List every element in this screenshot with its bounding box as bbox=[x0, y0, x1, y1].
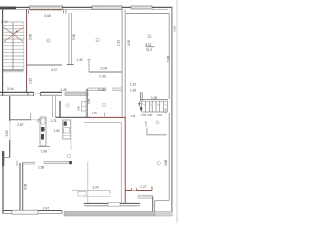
svg-text:2.47: 2.47 bbox=[43, 206, 49, 210]
shaft cells bbox=[141, 101, 167, 112]
corridor south wall dark segment bbox=[56, 116, 91, 118]
jamb tick at upper-left room corner bbox=[28, 10, 30, 14]
svg-text:0.55: 0.55 bbox=[141, 113, 147, 117]
red cross mark bbox=[138, 102, 140, 107]
svg-text:1.30: 1.30 bbox=[77, 58, 83, 62]
svg-text:1.22: 1.22 bbox=[130, 83, 136, 87]
svg-text:5.88: 5.88 bbox=[167, 56, 171, 62]
bottom-left partition wall bbox=[19, 163, 21, 211]
svg-text:4.27: 4.27 bbox=[51, 68, 58, 72]
svg-text:1.41: 1.41 bbox=[131, 114, 137, 118]
svg-text:3.24: 3.24 bbox=[93, 185, 99, 189]
stair mid divider bbox=[11, 22, 13, 70]
tread right edge line bbox=[23, 22, 25, 70]
svg-text:1.47: 1.47 bbox=[144, 121, 148, 127]
inner gray line of red room top bbox=[84, 121, 121, 123]
niche step wall bbox=[138, 195, 153, 198]
kitchen outer wall upper bbox=[9, 96, 11, 121]
vestibule circle bbox=[66, 104, 69, 107]
kitchen outer wall lower bbox=[9, 140, 11, 158]
right outer wall bbox=[171, 7, 173, 212]
svg-text:2.19: 2.19 bbox=[117, 40, 121, 46]
closet line bbox=[72, 190, 110, 192]
bottom gray neighbour wall bar bbox=[64, 212, 155, 217]
bottom room circle bbox=[67, 154, 70, 157]
left outer wall lower bbox=[2, 160, 4, 214]
kitchen duct column bbox=[40, 117, 46, 146]
bath left wall bbox=[85, 89, 87, 118]
window W2 bbox=[92, 6, 122, 9]
wall junction tick bbox=[27, 92, 29, 96]
stair block bottom wall bbox=[0, 91, 34, 93]
room number circle right room bbox=[148, 35, 151, 38]
upper-left room bottom wall bbox=[27, 64, 62, 66]
sanitary block top wall bbox=[89, 71, 122, 73]
svg-text:2.04: 2.04 bbox=[101, 66, 108, 70]
door jamb ticks below top wall bbox=[63, 9, 65, 14]
wall between upper rooms bbox=[68, 13, 70, 64]
stair direction red arrow bbox=[4, 28, 23, 42]
svg-text:76.3: 76.3 bbox=[146, 48, 153, 52]
red room bottom wall bbox=[125, 190, 131, 192]
svg-text:1.52: 1.52 bbox=[54, 129, 60, 133]
svg-text:1.21: 1.21 bbox=[51, 119, 57, 123]
corridor south wall red segment bbox=[90, 116, 126, 118]
svg-text:3.88: 3.88 bbox=[164, 160, 168, 166]
kitchen door jambs bbox=[30, 113, 32, 120]
svg-text:3.50: 3.50 bbox=[28, 34, 32, 40]
red room left wall: gray inner + red outer bbox=[120, 122, 122, 203]
bath circle bbox=[102, 103, 105, 106]
corridor bottom wall (kitchen top) bbox=[10, 119, 31, 121]
room number circle 1 (upper-left) bbox=[47, 39, 50, 42]
top wall segment bbox=[122, 6, 131, 8]
svg-text:1.30: 1.30 bbox=[130, 89, 136, 93]
bathroom front wall (lintel) bbox=[88, 88, 107, 90]
red stair wall bbox=[26, 10, 28, 93]
svg-text:2.87: 2.87 bbox=[17, 123, 24, 127]
frame right border bbox=[176, 0, 178, 223]
inner top wall line right section bbox=[126, 13, 169, 15]
door jamb tick red room bbox=[104, 113, 106, 118]
hall wall pair bbox=[52, 96, 54, 117]
left outer wall stair block bbox=[2, 7, 4, 96]
bottom window bbox=[12, 210, 38, 214]
closet partition bbox=[88, 60, 90, 72]
top wall: dark lintel bar over stairs bbox=[0, 7, 16, 10]
outer wall step pier bbox=[2, 151, 4, 166]
top wall segment to corner bbox=[152, 6, 172, 8]
top wall segment bbox=[62, 6, 92, 8]
big right room inner wall bbox=[168, 14, 170, 100]
svg-text:1.25: 1.25 bbox=[92, 112, 97, 115]
interior wall segment a bbox=[22, 161, 35, 163]
staircase treads bbox=[4, 22, 24, 66]
WC partition bbox=[146, 128, 148, 136]
bottom interior wall bbox=[84, 202, 108, 204]
svg-text:1.08: 1.08 bbox=[41, 150, 47, 154]
svg-text:2.15: 2.15 bbox=[28, 78, 32, 84]
svg-text:3.50: 3.50 bbox=[72, 34, 76, 40]
window W1 bbox=[30, 6, 63, 9]
svg-text:1.68: 1.68 bbox=[38, 166, 44, 170]
svg-text:0.90: 0.90 bbox=[76, 105, 80, 111]
top wall segment bbox=[16, 6, 30, 8]
central wall pair (upper part) bbox=[121, 10, 123, 118]
step down bbox=[61, 211, 63, 214]
shaft block right bbox=[140, 92, 142, 101]
svg-text:3.50: 3.50 bbox=[172, 26, 176, 32]
svg-text:КТ2: КТ2 bbox=[146, 43, 152, 47]
svg-text:1.16: 1.16 bbox=[163, 108, 167, 114]
small jamb tick bbox=[16, 161, 18, 167]
bottom outer wall left part bbox=[3, 210, 63, 212]
kitchen window line bbox=[9, 121, 11, 140]
svg-text:2.49: 2.49 bbox=[99, 75, 106, 79]
interior wall segment b bbox=[44, 161, 72, 163]
svg-text:1.49: 1.49 bbox=[61, 88, 67, 92]
red room circle bbox=[157, 161, 160, 164]
room number circle 2 (upper-mid) bbox=[96, 38, 99, 41]
door jamb bbox=[33, 92, 35, 96]
window W3 bbox=[131, 6, 152, 9]
svg-text:3.62: 3.62 bbox=[5, 130, 9, 136]
svg-text:2.27: 2.27 bbox=[140, 185, 146, 189]
svg-text:1.08: 1.08 bbox=[151, 96, 157, 100]
svg-text:0.64: 0.64 bbox=[157, 113, 163, 117]
svg-text:2.49: 2.49 bbox=[98, 88, 105, 92]
vestibule wall bbox=[59, 101, 61, 118]
red line under window W1 bbox=[30, 9, 62, 11]
svg-text:3.08: 3.08 bbox=[24, 184, 28, 190]
bottom-left room right wall (light) bbox=[87, 162, 89, 204]
door threshold line bbox=[34, 92, 41, 94]
svg-text:3.44: 3.44 bbox=[7, 87, 14, 91]
svg-text:0.81: 0.81 bbox=[148, 113, 154, 117]
svg-text:3.08: 3.08 bbox=[44, 14, 51, 18]
stair landing edge bbox=[3, 69, 24, 71]
svg-text:3.50: 3.50 bbox=[127, 40, 131, 46]
vestibule door rect bbox=[82, 102, 87, 112]
door lintel bar bbox=[65, 92, 88, 95]
svg-text:0.98: 0.98 bbox=[87, 98, 91, 104]
vent duct box (vestibule) bbox=[63, 120, 71, 139]
